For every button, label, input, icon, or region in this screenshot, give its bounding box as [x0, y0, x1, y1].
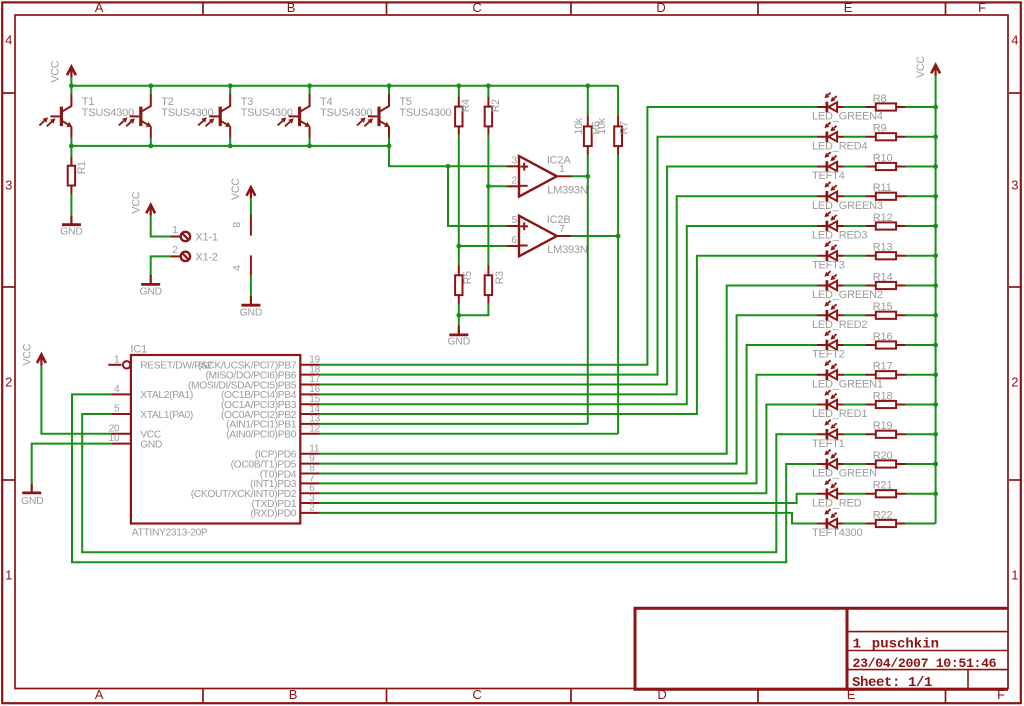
LED LED_GREEN2	[812, 271, 883, 301]
IC2 power pin 4	[231, 255, 251, 275]
wire LED to resistor	[844, 106, 867, 108]
wire net PD2: IC1 to LED row 11	[319, 405, 817, 494]
wire LED to resistor	[844, 314, 867, 316]
svg-text:LED_RED3: LED_RED3	[812, 230, 867, 242]
svg-text:3: 3	[512, 155, 518, 166]
wire divider to IC2A pin 2	[488, 185, 507, 187]
resistor R4	[455, 86, 472, 135]
IC1 pin 16 PB4	[221, 384, 321, 401]
wire net PD5: IC1 to LED row 8	[319, 315, 817, 463]
svg-text:2: 2	[511, 175, 517, 186]
svg-text:Sheet: 1/1: Sheet: 1/1	[852, 675, 932, 691]
wire LED to resistor	[844, 195, 867, 197]
wire LED to resistor	[844, 374, 867, 376]
IC1 pin 3 PD1	[252, 493, 320, 510]
svg-text:LED_RED: LED_RED	[812, 497, 862, 509]
ground (below R5/R3)	[448, 325, 471, 347]
IC1 pin 10 GND	[109, 433, 162, 450]
svg-text:R1: R1	[76, 161, 88, 174]
junction	[933, 134, 938, 139]
svg-text:T3: T3	[241, 96, 254, 108]
transistor T3 TSUS4300	[198, 86, 293, 146]
svg-text:1: 1	[114, 354, 120, 365]
wire LED to resistor	[844, 433, 867, 435]
svg-text:LED_GREEN4: LED_GREEN4	[812, 111, 883, 123]
svg-text:LED_GREEN: LED_GREEN	[812, 468, 877, 480]
op-amp IC2B LM393N	[507, 214, 588, 256]
IC1 pin 4 XTAL2(PA1)	[112, 384, 193, 401]
svg-text:2: 2	[172, 244, 178, 256]
junction	[148, 144, 153, 149]
svg-text:IC2B: IC2B	[547, 214, 571, 226]
wire LED to resistor	[844, 344, 867, 346]
junction	[933, 105, 938, 110]
svg-text:GND: GND	[240, 307, 263, 318]
svg-text:E: E	[844, 0, 853, 15]
wire R2 to R3 divider	[487, 134, 489, 265]
junction	[933, 343, 938, 348]
svg-text:4: 4	[5, 33, 12, 48]
IC1 pin 6 PD2	[191, 483, 320, 500]
svg-text:TEFT3: TEFT3	[812, 259, 845, 271]
IC1 pin 8 PD4	[260, 463, 320, 480]
svg-text:R20: R20	[873, 450, 893, 462]
LED LED_GREEN1	[812, 360, 883, 390]
resistor R8	[866, 93, 906, 111]
junction	[228, 83, 233, 88]
junction R2/R3 divider	[486, 184, 491, 189]
resistor R12	[866, 212, 906, 230]
title block	[634, 607, 1009, 691]
svg-text:A: A	[95, 0, 104, 15]
svg-text:3: 3	[1011, 178, 1018, 193]
wire net XTAL2/PA1: IC1 pin 4 to LED row 13	[72, 394, 817, 562]
resistor R9	[866, 123, 906, 141]
svg-text:R18: R18	[873, 390, 893, 402]
wire LED supply rail	[935, 76, 937, 524]
svg-text:LED_RED1: LED_RED1	[812, 408, 867, 420]
svg-text:R2: R2	[490, 99, 502, 112]
svg-text:GND: GND	[140, 439, 162, 450]
svg-text:10k: 10k	[573, 117, 585, 134]
wire LED to resistor	[844, 493, 867, 495]
svg-text:TSUS4300: TSUS4300	[241, 107, 293, 119]
junction IC2B output node	[616, 234, 621, 239]
junction R4/R5 divider	[456, 244, 461, 249]
svg-text:XTAL2(PA1): XTAL2(PA1)	[140, 390, 193, 401]
svg-text:TSUS4300: TSUS4300	[82, 107, 134, 119]
junction	[933, 253, 938, 258]
svg-text:5: 5	[512, 215, 518, 226]
wire emitter rail	[71, 145, 389, 147]
IC2 power pin 8	[231, 215, 251, 236]
svg-text:LM393N: LM393N	[547, 184, 588, 196]
wire net PB7: IC1 to LED row 1	[319, 107, 817, 365]
ground (IC1 pin 10)	[21, 483, 44, 507]
LED LED_GREEN4	[812, 93, 883, 123]
wire top VCC rail	[71, 85, 618, 87]
svg-text:R12: R12	[873, 212, 893, 224]
LED LED_GREEN3	[812, 182, 883, 212]
svg-text:R10: R10	[873, 152, 893, 164]
junction	[933, 432, 938, 437]
LED TEFT3	[812, 241, 845, 271]
IC1 pin 14 PB2	[221, 404, 321, 421]
junction	[933, 491, 938, 496]
IC1 pin 5 XTAL1(PA0)	[112, 404, 193, 421]
LED LED_RED4	[812, 122, 867, 152]
wire net PB6: IC1 to LED row 2	[319, 137, 817, 375]
svg-text:IC2A: IC2A	[547, 154, 572, 166]
svg-text:1: 1	[172, 224, 178, 236]
power symbol VCC (IC2 power)	[230, 178, 255, 200]
wire net PD1: IC1 pin 3 to LED row 14	[319, 494, 817, 503]
LED TEFT4	[812, 152, 845, 182]
resistor R21	[866, 480, 906, 498]
svg-text:1: 1	[5, 568, 12, 583]
wire net PD4: IC1 to LED row 9	[319, 345, 817, 474]
wire resistor to rail	[906, 285, 936, 287]
svg-text:D: D	[656, 0, 665, 15]
svg-text:TEFT4300: TEFT4300	[812, 527, 862, 539]
wire VCC to X1-1	[151, 216, 171, 237]
op-amp IC2A LM393N	[507, 154, 588, 196]
svg-text:GND: GND	[60, 226, 83, 237]
junction	[387, 144, 392, 149]
LED LED_RED3	[812, 212, 867, 242]
wire resistor to rail	[906, 106, 936, 108]
resistor R5	[455, 265, 474, 304]
wire resistor to rail	[906, 225, 936, 227]
ground (IC2 power)	[240, 296, 263, 319]
svg-text:F: F	[978, 0, 986, 15]
power symbol VCC (top left)	[50, 60, 76, 82]
svg-text:VCC: VCC	[230, 178, 242, 200]
svg-text:C: C	[472, 0, 481, 15]
wire IC1 pin 10 to GND	[32, 444, 112, 484]
svg-text:12: 12	[309, 423, 320, 434]
wire X1-2 to GND	[151, 256, 171, 275]
svg-text:LED_RED2: LED_RED2	[812, 319, 867, 331]
svg-text:B: B	[289, 687, 297, 702]
ground (below X1-2)	[139, 275, 162, 298]
wire LED to resistor	[844, 523, 867, 525]
svg-text:6: 6	[511, 235, 517, 246]
LED LED_GREEN	[812, 450, 877, 480]
junction	[228, 144, 233, 149]
junction	[307, 83, 312, 88]
svg-text:LED_GREEN3: LED_GREEN3	[812, 200, 883, 212]
svg-text:B: B	[287, 0, 295, 15]
svg-text:VCC: VCC	[50, 60, 62, 82]
svg-text:TSUS4300: TSUS4300	[320, 107, 372, 119]
svg-text:2: 2	[309, 503, 315, 514]
svg-text:T5: T5	[399, 96, 412, 108]
svg-text:LED_GREEN2: LED_GREEN2	[812, 289, 883, 301]
resistor R15	[866, 301, 906, 319]
svg-text:R17: R17	[873, 361, 893, 373]
LED TEFT4300	[812, 509, 862, 539]
svg-text:R15: R15	[873, 301, 893, 313]
junction	[387, 83, 392, 88]
resistor R18	[866, 390, 906, 408]
wire R6 to IC2A output and IC1 pin 13	[587, 154, 589, 424]
wire R1 to GND	[70, 194, 72, 215]
wire R4 to R5 divider	[458, 134, 460, 265]
svg-text:R21: R21	[873, 480, 893, 492]
LED TEFT1	[812, 420, 845, 450]
svg-text:R16: R16	[873, 331, 893, 343]
junction	[933, 372, 938, 377]
wire R7 to IC2B output and IC1 pin 12	[617, 154, 619, 433]
resistor R16	[866, 331, 906, 349]
wire resistor to rail	[906, 493, 936, 495]
junction	[69, 144, 74, 149]
wire IC1 pin 20 to VCC	[41, 365, 112, 433]
svg-text:R5: R5	[462, 271, 474, 284]
IC1 pin 1 RESET	[108, 354, 212, 371]
junction	[933, 164, 938, 169]
IC1 pin 12 PB0	[226, 423, 321, 440]
svg-text:TSUS4300: TSUS4300	[161, 107, 213, 119]
wire LED to resistor	[844, 404, 867, 406]
wire resistor to rail	[906, 374, 936, 376]
junction	[307, 144, 312, 149]
svg-text:10: 10	[109, 433, 120, 444]
junction GND tee	[456, 313, 461, 318]
transistor T1 TSUS4300	[39, 86, 134, 146]
svg-text:3: 3	[5, 178, 12, 193]
resistor R7 10k	[596, 86, 631, 155]
wire resistor to rail	[906, 314, 936, 316]
IC1 pin 19 PB7	[198, 355, 321, 372]
wire net PB2: IC1 to LED row 6	[319, 256, 817, 414]
svg-text:ATTINY2313-20P: ATTINY2313-20P	[132, 528, 208, 539]
wire net PB3: IC1 to LED row 5	[319, 226, 817, 404]
svg-text:TEFT1: TEFT1	[812, 438, 845, 450]
wire R5/R3 bottoms to GND	[458, 304, 460, 326]
svg-text:VCC: VCC	[22, 343, 34, 365]
junction	[585, 83, 590, 88]
wire resistor to rail	[906, 136, 936, 138]
wire resistor to rail	[906, 195, 936, 197]
wire net PB5: IC1 to LED row 3	[319, 167, 817, 385]
junction	[933, 462, 938, 467]
resistor R10	[866, 152, 906, 170]
svg-text:R9: R9	[873, 123, 887, 135]
svg-text:R22: R22	[873, 509, 893, 521]
LED LED_RED1	[812, 390, 867, 420]
transistor T2 TSUS4300	[119, 86, 214, 146]
wire net PD6: IC1 to LED row 7	[319, 286, 817, 454]
svg-text:5: 5	[114, 404, 120, 415]
resistor R2	[485, 86, 502, 135]
IC1 pin 18 PB6	[205, 364, 320, 381]
svg-text:23/04/2007 10:51:46: 23/04/2007 10:51:46	[853, 656, 997, 671]
wire VCC to top rail	[70, 78, 72, 86]
resistor R22	[866, 509, 906, 527]
wire net XTAL1/PA0: IC1 pin 5 to LED row 12	[82, 414, 817, 552]
resistor R11	[866, 182, 906, 200]
resistor R20	[866, 450, 906, 468]
junction	[933, 224, 938, 229]
svg-text:1: 1	[853, 637, 861, 653]
transistor T4 TSUS4300	[278, 86, 373, 146]
svg-text:R8: R8	[873, 93, 887, 105]
svg-text:10k: 10k	[596, 117, 608, 134]
resistor R19	[866, 420, 906, 438]
wire LED to resistor	[844, 255, 867, 257]
svg-text:X1-1: X1-1	[195, 232, 218, 244]
junction	[456, 83, 461, 88]
wire resistor to rail	[906, 404, 936, 406]
IC1 pin 20 VCC	[109, 423, 162, 440]
wire resistor to rail	[906, 463, 936, 465]
resistor R1	[68, 146, 88, 195]
svg-text:R7: R7	[619, 121, 631, 134]
svg-text:RESET/DW/PA2: RESET/DW/PA2	[140, 360, 212, 371]
power symbol VCC (LED rail)	[915, 56, 940, 78]
junction	[933, 402, 938, 407]
svg-text:C: C	[472, 687, 481, 702]
wire net PD0: IC1 pin 2 to LED row 15	[319, 513, 817, 524]
IC1 pin 9 PD5	[231, 453, 320, 470]
wire LED to resistor	[844, 136, 867, 138]
junction IC2A output node	[585, 174, 590, 179]
wire IC2A output	[571, 175, 588, 177]
resistor R13	[866, 242, 906, 260]
wire LED to resistor	[844, 166, 867, 168]
junction	[933, 283, 938, 288]
svg-text:1: 1	[1011, 568, 1018, 583]
connector pin X1-2	[171, 244, 218, 264]
wire IC2 pin 4 to GND	[250, 275, 252, 296]
svg-text:R14: R14	[873, 271, 893, 283]
wire LED to resistor	[844, 225, 867, 227]
transistor T5 TSUS4300	[357, 86, 452, 146]
ground (below R1)	[60, 215, 83, 237]
wire VCC to IC2 pin 8	[250, 198, 252, 215]
power symbol VCC (IC1)	[22, 343, 46, 365]
resistor R17	[866, 361, 906, 379]
svg-text:VCC: VCC	[915, 56, 927, 78]
LED TEFT2	[812, 331, 845, 361]
junction	[933, 194, 938, 199]
svg-text:4: 4	[1011, 33, 1018, 48]
wire IC2B output	[571, 235, 618, 237]
svg-text:4: 4	[231, 265, 243, 271]
svg-text:T4: T4	[320, 96, 333, 108]
svg-text:2: 2	[1011, 375, 1018, 390]
svg-text:puschkin: puschkin	[872, 637, 939, 653]
svg-text:R19: R19	[873, 420, 893, 432]
IC1 pin 17 PB5	[188, 374, 321, 391]
wire resistor to rail	[906, 344, 936, 346]
wire resistor to rail	[906, 166, 936, 168]
junction	[148, 83, 153, 88]
junction	[486, 83, 491, 88]
IC1 pin 11 PD6	[255, 444, 320, 461]
svg-text:TSUS4300: TSUS4300	[399, 107, 451, 119]
IC1 pin 7 PD3	[250, 473, 319, 490]
power symbol VCC (X1)	[130, 191, 155, 216]
op IC1 box ATTINY2313-20P	[131, 343, 301, 538]
svg-text:R4: R4	[460, 99, 472, 112]
junction node pin3/pin5	[446, 164, 451, 169]
IC1 pin 13 PB1	[226, 414, 321, 431]
wire net PD3: IC1 to LED row 10	[319, 375, 817, 484]
wire LED to resistor	[844, 463, 867, 465]
resistor R14	[866, 271, 906, 289]
svg-text:(AIN0/PCI0)PB0: (AIN0/PCI0)PB0	[226, 430, 297, 441]
svg-text:8: 8	[231, 222, 243, 228]
wire emitter rail to IC2A pin 3 and IC2B pin 5	[389, 146, 508, 166]
resistor R6 10k	[573, 86, 602, 155]
svg-text:T1: T1	[82, 96, 95, 108]
resistor R3	[485, 265, 506, 304]
wire resistor to rail	[906, 255, 936, 257]
svg-text:VCC: VCC	[130, 191, 142, 213]
svg-text:(RXD)PD0: (RXD)PD0	[250, 509, 296, 520]
svg-text:R3: R3	[494, 271, 506, 284]
svg-text:A: A	[95, 687, 104, 702]
svg-text:XTAL1(PA0): XTAL1(PA0)	[140, 410, 193, 421]
connector pin X1-1	[171, 224, 218, 244]
svg-text:T2: T2	[161, 96, 174, 108]
IC1 pin 2 PD0	[250, 503, 319, 520]
wire net PB4: IC1 to LED row 4	[319, 196, 817, 394]
svg-text:GND: GND	[448, 337, 471, 348]
svg-text:GND: GND	[139, 287, 162, 298]
LED LED_RED	[812, 479, 862, 509]
IC1 pin 15 PB3	[221, 394, 321, 411]
svg-text:LM393N: LM393N	[547, 244, 588, 256]
svg-text:LED_RED4: LED_RED4	[812, 140, 867, 152]
svg-text:2: 2	[5, 375, 12, 390]
svg-text:R11: R11	[873, 182, 892, 194]
svg-text:IC1: IC1	[131, 343, 148, 355]
wire resistor to rail	[906, 433, 936, 435]
junction	[933, 313, 938, 318]
svg-text:R13: R13	[873, 242, 893, 254]
svg-text:TEFT4: TEFT4	[812, 170, 845, 182]
svg-text:4: 4	[114, 384, 120, 395]
wire divider to IC2B pin 6	[459, 245, 508, 247]
svg-text:GND: GND	[21, 496, 44, 507]
junction	[69, 83, 74, 88]
svg-text:TEFT2: TEFT2	[812, 349, 845, 361]
wire LED to resistor	[844, 285, 867, 287]
LED LED_RED2	[812, 301, 867, 331]
svg-text:X1-2: X1-2	[195, 252, 218, 264]
svg-text:LED_GREEN1: LED_GREEN1	[812, 378, 883, 390]
